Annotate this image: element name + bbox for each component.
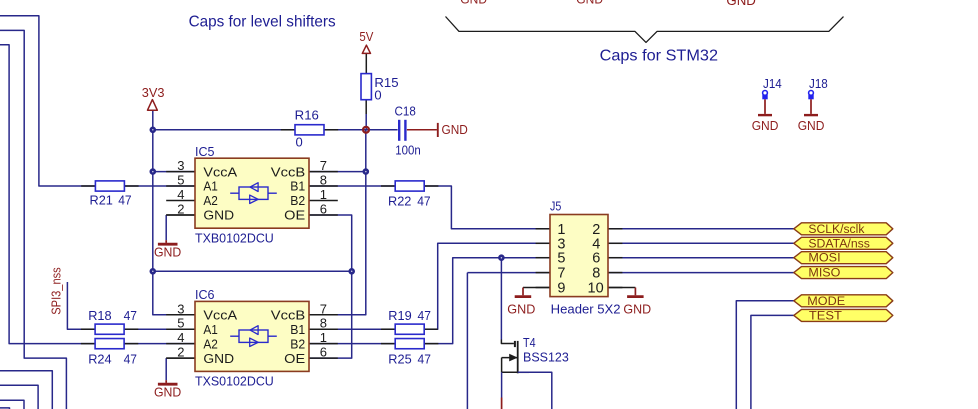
svg-text:R18: R18 [88, 308, 111, 323]
svg-text:47: 47 [124, 351, 137, 366]
svg-text:MOSI: MOSI [808, 253, 840, 265]
svg-text:TXS0102DCU: TXS0102DCU [195, 374, 274, 389]
svg-text:6: 6 [320, 345, 327, 360]
svg-text:TXB0102DCU: TXB0102DCU [195, 231, 274, 246]
svg-text:GND: GND [203, 208, 234, 223]
svg-text:4: 4 [177, 330, 184, 345]
svg-text:R21: R21 [90, 193, 113, 208]
svg-text:3: 3 [177, 301, 184, 316]
svg-text:2: 2 [177, 202, 184, 217]
svg-text:2: 2 [177, 345, 184, 360]
svg-text:GND: GND [154, 385, 181, 400]
svg-text:47: 47 [417, 194, 430, 209]
svg-text:OE: OE [284, 351, 305, 366]
svg-text:0: 0 [374, 88, 381, 103]
svg-text:6: 6 [592, 251, 600, 267]
svg-text:47: 47 [418, 351, 431, 366]
svg-text:GND: GND [203, 351, 234, 366]
svg-text:GND: GND [752, 118, 779, 133]
svg-text:A2: A2 [203, 193, 218, 208]
svg-text:GND: GND [442, 122, 468, 137]
svg-text:BSS123: BSS123 [523, 349, 569, 364]
svg-text:OE: OE [284, 208, 305, 223]
svg-text:TEST: TEST [809, 310, 842, 322]
svg-text:J14: J14 [763, 76, 782, 91]
svg-text:GND: GND [507, 302, 535, 317]
svg-text:5: 5 [177, 316, 184, 331]
svg-text:B1: B1 [290, 322, 305, 337]
svg-text:6: 6 [320, 202, 327, 217]
svg-text:GND: GND [623, 302, 651, 317]
svg-text:47: 47 [418, 308, 431, 323]
svg-text:0: 0 [296, 134, 303, 149]
svg-text:3: 3 [177, 158, 184, 173]
svg-text:A1: A1 [203, 179, 218, 194]
svg-text:Caps for STM32: Caps for STM32 [600, 47, 719, 64]
svg-text:Header 5X2: Header 5X2 [551, 302, 621, 317]
svg-text:MISO: MISO [808, 268, 840, 280]
svg-text:Caps for level shifters: Caps for level shifters [189, 14, 336, 31]
svg-text:1: 1 [320, 330, 327, 345]
svg-text:47: 47 [124, 308, 137, 323]
svg-text:SDATA/nss: SDATA/nss [808, 238, 870, 250]
svg-text:SCLK/sclk: SCLK/sclk [808, 224, 864, 236]
svg-text:GND: GND [460, 0, 487, 6]
svg-text:IC5: IC5 [195, 144, 215, 159]
svg-text:MODE: MODE [807, 296, 845, 308]
svg-text:R19: R19 [388, 308, 411, 323]
svg-text:5V: 5V [359, 29, 373, 44]
svg-text:VccB: VccB [271, 308, 305, 323]
svg-text:VccA: VccA [203, 308, 237, 323]
svg-text:GND: GND [726, 0, 756, 8]
svg-text:GND: GND [576, 0, 603, 6]
svg-text:B2: B2 [290, 193, 305, 208]
svg-text:10: 10 [588, 281, 604, 297]
svg-text:GND: GND [798, 118, 825, 133]
svg-text:T4: T4 [523, 335, 536, 350]
svg-text:VccA: VccA [203, 164, 237, 179]
svg-text:J5: J5 [550, 198, 561, 213]
svg-text:7: 7 [320, 158, 327, 173]
svg-text:GND: GND [154, 245, 181, 260]
svg-text:9: 9 [557, 281, 565, 297]
svg-text:VccB: VccB [271, 164, 305, 179]
svg-text:IC6: IC6 [195, 287, 215, 302]
svg-text:B1: B1 [290, 179, 305, 194]
svg-text:8: 8 [320, 173, 327, 188]
svg-text:5: 5 [177, 173, 184, 188]
svg-text:B2: B2 [290, 336, 305, 351]
svg-text:R25: R25 [388, 351, 411, 366]
svg-text:8: 8 [592, 266, 600, 282]
svg-text:R16: R16 [295, 108, 319, 123]
svg-text:8: 8 [320, 316, 327, 331]
svg-text:R24: R24 [88, 351, 111, 366]
svg-text:1: 1 [320, 187, 327, 202]
svg-text:C18: C18 [395, 104, 416, 119]
svg-text:100n: 100n [395, 142, 420, 157]
svg-text:A2: A2 [203, 336, 218, 351]
svg-text:4: 4 [177, 187, 184, 202]
svg-text:7: 7 [320, 301, 327, 316]
svg-text:7: 7 [557, 266, 565, 282]
svg-text:47: 47 [118, 193, 131, 208]
svg-text:A1: A1 [203, 322, 218, 337]
svg-text:3V3: 3V3 [142, 85, 165, 100]
svg-text:SPI3_nss: SPI3_nss [49, 267, 64, 315]
svg-text:R22: R22 [388, 194, 411, 209]
svg-text:J18: J18 [809, 76, 828, 91]
svg-text:5: 5 [557, 251, 565, 267]
